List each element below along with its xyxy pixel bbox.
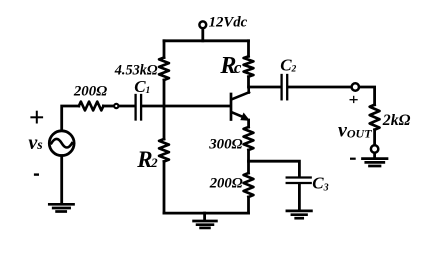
wire vs to ground [60,156,63,204]
svg-text:vs: vs [28,132,43,154]
svg-text:300Ω: 300Ω [208,136,242,152]
wire node to C1 [119,105,135,108]
svg-text:200Ω: 200Ω [73,83,107,99]
wire terminal to ground [373,153,376,157]
wire 200 to bottom rail [247,197,250,213]
wire node to C3 [249,161,300,176]
resistor 200ohm emitter [244,173,254,197]
source vs [49,131,74,156]
terminal 12Vdc [199,21,206,28]
wire C3 to ground [298,184,301,210]
ground output [363,159,388,166]
capacitor C2 [280,75,282,99]
resistor 2k [370,105,380,130]
label minus input [34,173,39,175]
svg-text:C3: C3 [312,174,328,194]
svg-text:4.53kΩ: 4.53kΩ [114,62,158,78]
capacitor C3 [287,176,311,178]
terminal output bottom [371,145,378,152]
label plus output [350,99,358,101]
ground vs [49,204,73,211]
wire 200 to node dot [103,105,113,108]
wire C1 to base [142,105,230,108]
wire top rail [164,39,249,42]
wire 2k to output terminal bottom [373,130,376,145]
svg-text:R2: R2 [136,147,158,172]
resistor 4.53k [159,58,169,80]
ground C3 [287,211,312,218]
label minus output [350,158,356,160]
wire 4.53k to base node [163,80,166,139]
wire rail to Rc [247,41,250,57]
terminal output top [352,83,359,90]
svg-text:2kΩ: 2kΩ [382,112,411,129]
wire Rc to collector [247,77,250,87]
resistor 200ohm input [79,102,104,111]
wire collector to C2 [249,86,281,89]
svg-text:12Vdc: 12Vdc [209,15,248,31]
svg-text:C1: C1 [134,77,150,96]
resistor R2 [159,139,169,162]
capacitor C1 [134,95,136,120]
svg-text:C2: C2 [280,55,296,74]
ground bottom rail [203,213,206,220]
svg-text:200Ω: 200Ω [209,176,243,192]
wire C2 to output terminal [288,86,351,89]
resistor Rc [244,56,254,76]
svg-text:vOUT: vOUT [338,119,372,141]
wire terminal to 2k [359,87,374,105]
wire bottom rail [164,212,249,215]
wire R2 to bottom rail [163,162,166,214]
wire rail to 4.53k resistor [163,41,166,58]
resistor 300ohm [244,127,254,150]
wire 12Vdc stub [201,29,204,41]
transistor Q1 [230,94,233,120]
node open dot [114,104,118,108]
wire 300 to 200 node [247,150,250,173]
label plus input [30,116,43,118]
wire vs to 200 input [62,106,79,131]
svg-text:Rc: Rc [219,53,242,79]
